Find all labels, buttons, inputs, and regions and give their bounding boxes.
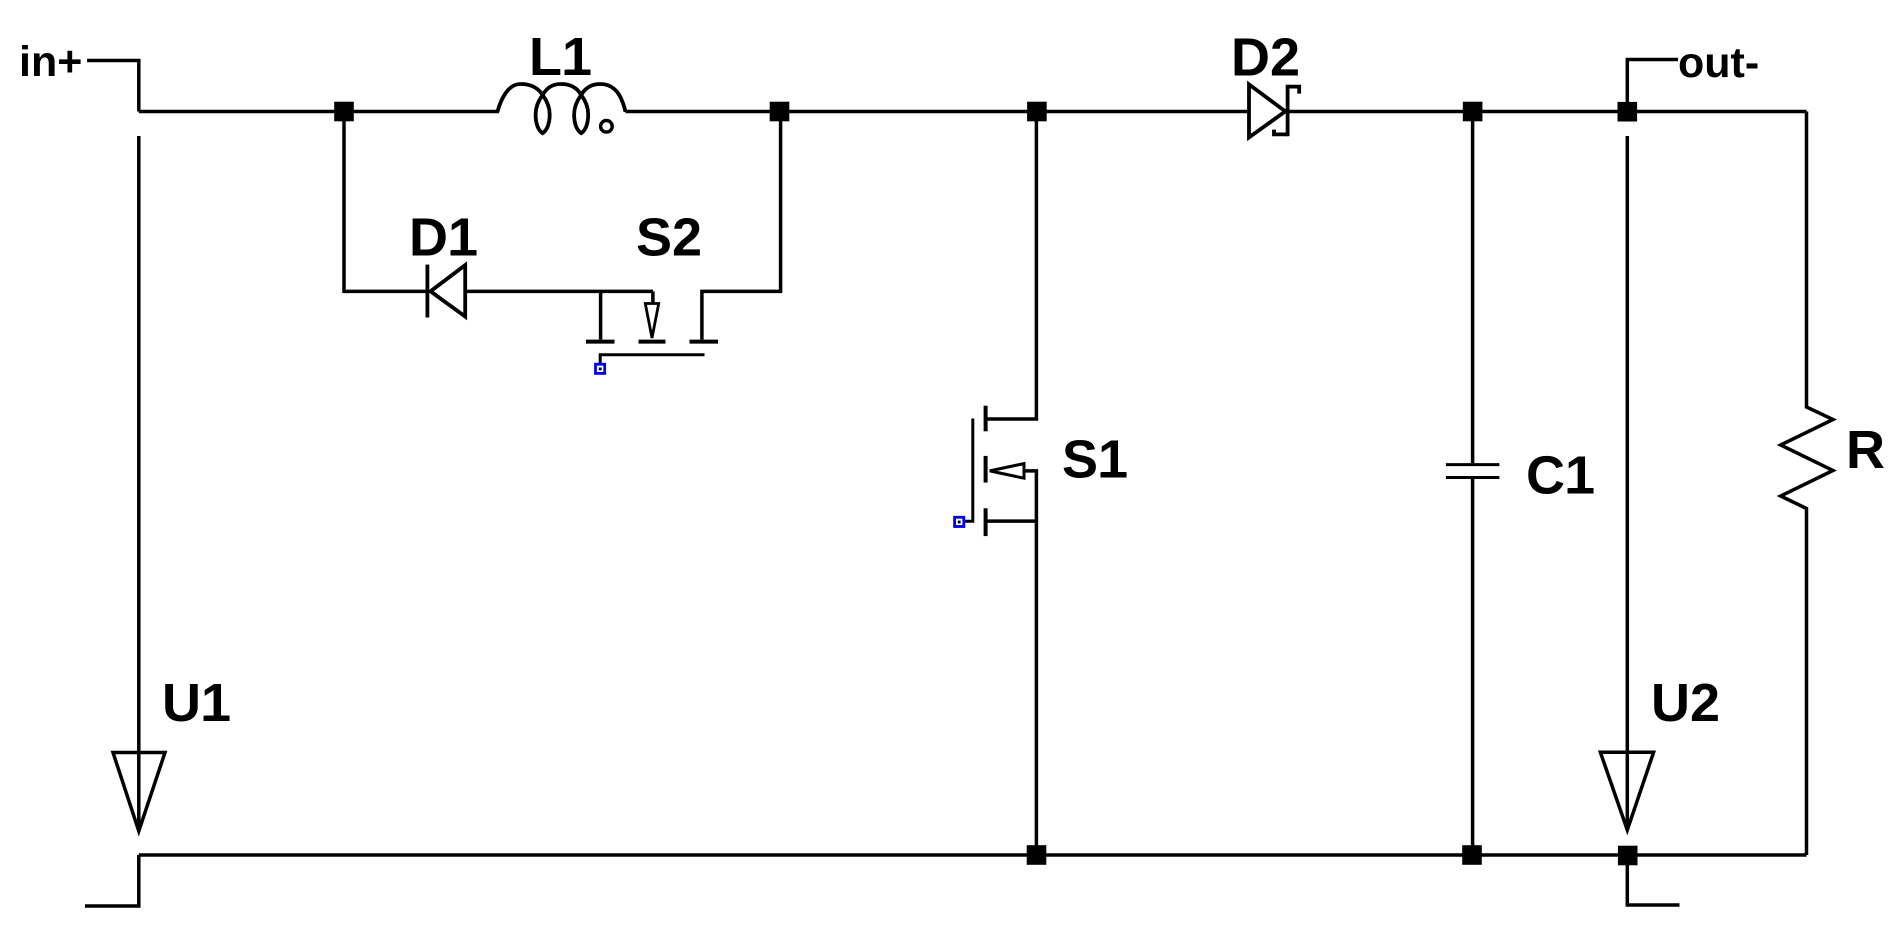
node junction J4 (1463, 102, 1483, 122)
svg-text:in+: in+ (19, 38, 82, 86)
wire C1 branch from junction J4 down (1471, 112, 1475, 464)
S2 drain stub and wire up to junction J2 (702, 112, 781, 340)
svg-text:S1: S1 (1062, 430, 1128, 490)
wire D1 branch from junction J1 down (344, 112, 427, 292)
svg-text:D2: D2 (1231, 28, 1300, 88)
diode D2 (1249, 84, 1299, 137)
wire in+ lead (87, 61, 139, 112)
wire D1 to S2 (467, 290, 653, 294)
svg-text:out-: out- (1678, 39, 1759, 87)
S2 contact bars (586, 340, 718, 344)
node junction B2 (1462, 845, 1482, 865)
wire top rail right (D2 to out corner) (1288, 110, 1807, 114)
S2 source stub (599, 291, 603, 339)
S1 bulk arrow stem and source line down to bottom junction (1024, 471, 1036, 855)
node junction B3 (1618, 846, 1638, 866)
S1 gate plate (965, 419, 973, 522)
wire bottom-right hook (1627, 855, 1679, 905)
node junction J2 (770, 102, 790, 122)
voltage source U1 line (137, 136, 141, 831)
voltage source U2 arrow (1600, 752, 1653, 830)
diode D1 (427, 265, 465, 318)
svg-text:L1: L1 (529, 27, 592, 87)
voltage source U2 line (1626, 136, 1630, 830)
wire bottom rail (139, 853, 1807, 857)
S1 source stub (986, 519, 1037, 523)
S1 gate terminal (blue square) (955, 517, 964, 526)
wire top rail middle (L1 to D2) (626, 110, 1250, 114)
S2 gate plate (600, 355, 704, 364)
svg-text:S2: S2 (636, 208, 702, 268)
wire out- hook (1627, 60, 1678, 112)
svg-text:U2: U2 (1651, 673, 1720, 733)
voltage source U1 arrow (113, 753, 165, 832)
svg-text:C1: C1 (1526, 446, 1595, 506)
S2 bulk arrow (645, 304, 658, 339)
S2 bulk arrow stem (651, 291, 655, 303)
node junction J3 (1027, 102, 1047, 122)
wire S1 branch from junction J3 down (986, 112, 1037, 420)
S2 gate terminal (blue square) (596, 364, 605, 373)
resistor R (right branch with zigzag) (1781, 112, 1833, 856)
S1 contact bars (984, 406, 988, 536)
S1 bulk arrow (990, 464, 1024, 479)
wire top rail left (in+ corner to L1) (139, 110, 499, 114)
capacitor C1 (1446, 465, 1500, 478)
wire C1 bottom (1471, 479, 1475, 855)
inductor L1 (497, 84, 625, 133)
svg-text:D1: D1 (409, 208, 478, 268)
svg-text:R: R (1846, 420, 1885, 480)
node junction J1 (334, 102, 354, 122)
wire bottom-left hook (85, 855, 139, 906)
node junction B1 (1027, 845, 1047, 865)
svg-text:U1: U1 (162, 673, 231, 733)
node junction J5 (1618, 102, 1638, 122)
